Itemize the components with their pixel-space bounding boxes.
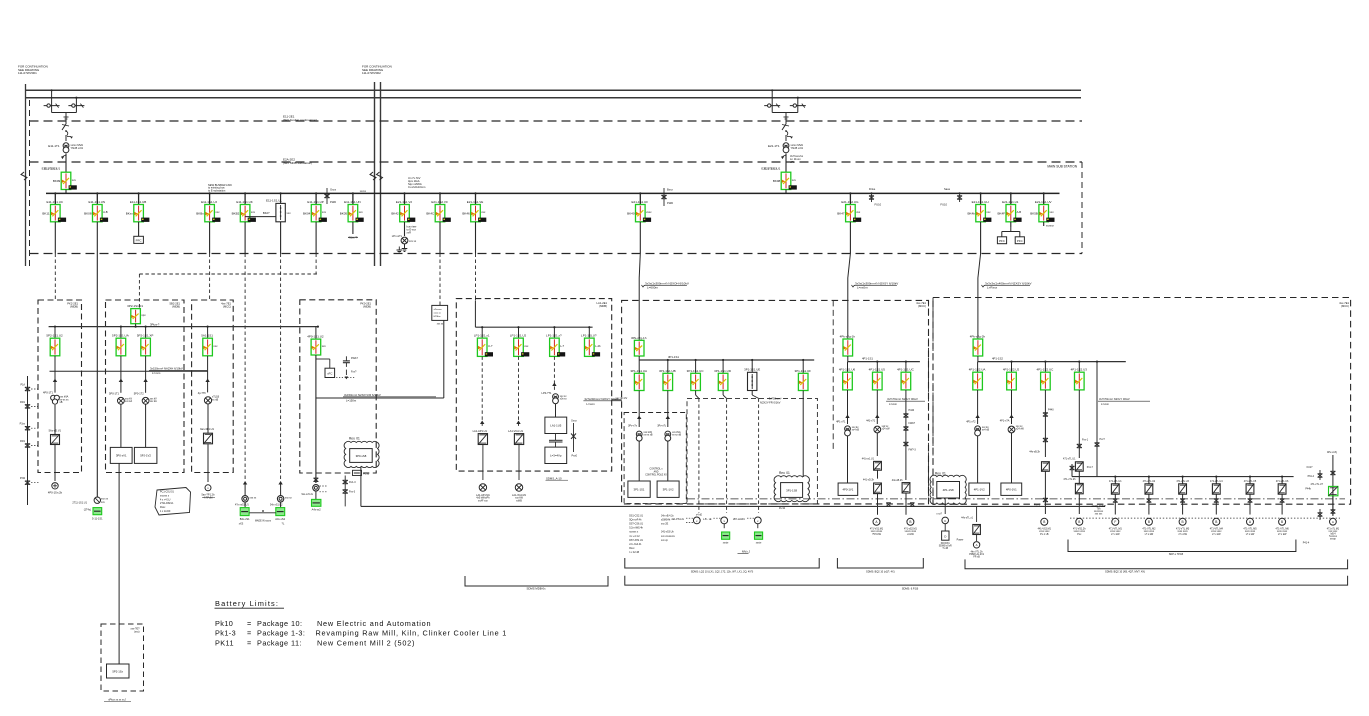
svg-text:BK4b: BK4b [967,212,975,216]
sub-bus left riser [1071,464,1073,477]
svg-text:x?.x kW: x?.x kW [1278,533,1287,536]
converter LA1-VCA.U1 [514,434,523,445]
svg-text:L=xx0m: L=xx0m [857,286,868,290]
svg-text:BK4C: BK4C [426,212,435,216]
svg-text:L=xxm: L=xxm [152,371,161,375]
svg-text:xxxxxx x: xxxxxx x [160,494,170,497]
wire: box E bus [475,326,592,328]
motor H B [907,518,914,525]
svg-text:L=xxm: L=xxm [586,402,595,406]
wire: drives sub-bus [1072,476,1294,478]
svg-text:(MDB): (MDB) [172,305,180,309]
bracket SDMS left group [625,558,819,568]
svg-text:4Pv-xxXj: 4Pv-xxXj [1327,451,1337,454]
breaker E21-1S1.UH [967,200,991,222]
breaker E11-1S1.UK [232,200,256,222]
svg-text:FW1: FW1 [20,440,26,443]
svg-text:xxx: xxx [322,345,327,348]
wire: LV link bus y371 [50,370,208,372]
bottom motor G 699 [693,517,700,524]
svg-text:MADE IN xxxxx: MADE IN xxxxx [255,520,272,523]
motor 471 col 6 [1279,518,1286,525]
svg-text:Gxxx: Gxxx [571,420,577,423]
svg-text:DS?-CS6.U1: DS?-CS6.U1 [629,523,643,526]
svg-text:A-B: A-B [1017,210,1022,214]
wire H col 905 tail [905,493,907,515]
wire: long tie line [361,505,1105,507]
wire LA1 col1 dashed [481,356,483,428]
svg-text:5P0-1T2: 5P0-1T2 [134,392,145,396]
panel box D dashed PK0-2E1 [300,300,376,473]
svg-text:P41-4: P41-4 [1303,542,1310,545]
svg-text:4P1-1S2.UA: 4P1-1S2.UA [969,368,986,372]
node: tap E11-1T1 on bus1 [51,89,53,91]
starter green box D tail [312,499,321,506]
rectifier 4P1-1V2 box [969,483,990,495]
wire H col 877 [876,390,878,424]
svg-text:xxx kA: xxx kA [125,400,132,403]
svg-text:SDP-L 7P.1B: SDP-L 7P.1B [1169,553,1184,556]
breaker 4P1-1S2.UC [1044,362,1046,373]
breaker E21-1S1.UV [1030,200,1054,222]
svg-text:xxx xx: xxx xx [437,324,444,326]
svg-text:E21-1T1: E21-1T1 [768,144,780,148]
breaker E11-1S1 incomer [53,172,77,189]
node: tap E21-1T1 on bus1 [771,89,773,91]
wire feeder drop E21-1S2.UG [849,193,851,204]
svg-text:xE1-PS1.2x: xE1-PS1.2x [671,518,684,521]
svg-text:2T11-DSLV1: 2T11-DSLV1 [160,502,174,505]
svg-text:E11-1S1.UJ: E11-1S1.UJ [201,200,217,204]
svg-text:Rev. 01: Rev. 01 [349,436,360,440]
svg-text:L-?: L-? [560,344,564,348]
svg-text:MTRxx: MTRxx [434,316,442,318]
svg-text:3P1-1S1.UA: 3P1-1S1.UA [630,369,647,373]
svg-text:B: B [1182,520,1184,524]
motor 471 col 5 [1247,518,1254,525]
svg-text:Revamping Raw Mill, Kiln, Clin: Revamping Raw Mill, Kiln, Clinker Cooler… [316,629,508,638]
revision cloud 4P1-1S8 [930,475,966,504]
svg-text:x?.x kW: x?.x kW [1145,533,1154,536]
svg-text:x4 kW: x4 kW [907,533,914,536]
svg-text:DS?-3XS.U1: DS?-3XS.U1 [629,539,643,542]
svg-text:Gxxx: Gxxx [330,188,337,192]
svg-text:3P1-1S1.UF: 3P1-1S1.UF [794,369,811,373]
svg-text:BK46: BK46 [462,212,470,216]
lv stub E11-1T1 [65,154,67,173]
svg-text:x?.x kW: x?.x kW [1178,533,1187,536]
svg-text:3P1-1S8: 3P1-1S8 [786,488,797,492]
wire feeder drop E21-1S1.U1 [1010,193,1012,204]
svg-text:BK09: BK09 [53,179,61,183]
svg-text:L=150m: L=150m [346,399,357,403]
wire box B column XP 2 [145,404,147,447]
wire LA1 col1 tail [482,444,484,480]
svg-text:Battery Limits:: Battery Limits: [215,599,279,608]
svg-text:MAIN SUB STATION: MAIN SUB STATION [1047,165,1077,169]
wire box E entry [474,301,476,327]
svg-text:BK08: BK08 [773,179,781,183]
svg-text:BK11: BK11 [42,212,49,216]
capacitor bank PFC box b [1015,237,1024,244]
svg-text:B: B [1281,520,1283,524]
svg-text:x?.x kW: x?.x kW [1111,533,1120,536]
svg-text:4P1-1S1.UC: 4P1-1S1.UC [897,368,915,372]
wire G col 639 tail [638,441,640,481]
svg-text:x24 xW: x24 xW [1016,428,1025,431]
svg-text:4P1-1S2: 4P1-1S2 [992,356,1003,360]
svg-text:Pxx0: Pxx0 [572,455,578,458]
transformer E11-1T1 [63,143,69,149]
svg-text:SDMS MDB-0x: SDMS MDB-0x [527,587,547,591]
wire feeder drop E11-1S1.UB [138,193,140,204]
capacitor bank PFC box a [997,237,1006,244]
svg-text:BK4F: BK4F [997,212,1005,216]
svg-text:Fxx?: Fxx? [351,371,357,374]
breaker 4P1-1S2.U2 [1011,362,1013,373]
svg-text:=: = [247,638,251,647]
svg-text:4 x +4 1U: 4 x +4 1U [160,498,171,501]
svg-text:(MCC): (MCC) [918,304,926,308]
svg-text:Bxxx: Bxxx [667,188,673,192]
svg-text:Rev. 01: Rev. 01 [779,471,790,475]
contactor cell E11-1S1.UL (plain) [280,192,282,194]
rectifier 4P0-1V1 box [838,483,858,495]
svg-text:LA1-1U5: LA1-1U5 [550,424,561,428]
rectifier 5P1-1V2 box [134,447,157,463]
node: 6kV tap E21-1S1.UF [639,192,641,194]
motor feeder dashed 759 [758,398,760,513]
rectifier 3P1-1V2 box [657,481,679,497]
svg-text:3P1-1S1: 3P1-1S1 [668,355,679,359]
wire: feeder 440 tail dashed [439,222,441,254]
svg-text:PK11: PK11 [215,638,234,647]
breaker E11-1S1.UB [126,200,150,222]
fuse switch E21-1T1-a [764,105,780,107]
svg-text:PFC: PFC [999,239,1005,243]
svg-text:BK47: BK47 [837,212,845,216]
svg-text:xxx 4/x kV: xxx 4/x kV [615,396,627,400]
svg-text:xxx 2E: xxx 2E [661,523,669,526]
svg-text:PC1-CSU.01: PC1-CSU.01 [160,491,174,494]
svg-text:=: = [247,619,251,628]
svg-text:3Pkxx-?: 3Pkxx-? [150,322,160,326]
wire I col 977 [977,390,979,424]
wire: box H bus [847,356,849,362]
svg-text:9an-3P1.U1: 9an-3P1.U1 [200,427,214,431]
wire feeder drop E11-1S1.UN [96,193,98,204]
motor I col 1079 [1076,518,1083,525]
svg-text:xxx: xxx [287,212,292,215]
drive feeder 471 col 4 [1215,476,1217,478]
breaker 5A1-1S1 [207,327,209,339]
svg-text:(MDB): (MDB) [599,304,607,308]
svg-text:BK42: BK42 [391,212,399,216]
breaker E11-1S1.UC [42,200,66,222]
svg-text:3P2-1S1.01: 3P2-1S1.01 [127,304,143,308]
svg-text:LA1-AP1.U1: LA1-AP1.U1 [473,429,488,433]
svg-text:341-xS3.Ub: 341-xS3.Ub [661,531,674,534]
wire box A column 3 [54,445,56,482]
svg-text:3P0-xS8: 3P0-xS8 [356,454,367,458]
bottom motor C group [944,498,946,514]
converter LA1-AP1.U1 [478,434,487,445]
svg-text:BK05: BK05 [340,212,348,216]
boundary: left limit lines [25,84,27,266]
break mark left [21,172,27,180]
capacitor bank PFC box feeder 138 [134,236,144,243]
svg-text:L-4b: L-4b [595,344,601,348]
svg-text:3Pv-x?j: 3Pv-x?j [657,425,666,428]
svg-text:441-xx1.U1: 441-xx1.U1 [862,458,875,461]
wire: collector dashed y274 [139,273,317,275]
svg-text:?x xB: ?x xB [942,548,948,550]
svg-text:4?x-xxS1.U1: 4?x-xxS1.U1 [235,504,249,507]
divider dashed in box G [832,300,834,452]
svg-text:5P2-1S1.XP: 5P2-1S1.XP [137,334,154,338]
svg-text:A: A [976,543,978,547]
svg-text:BK5B: BK5B [1030,212,1038,216]
node: 6kV tap E11-1S1.UC [54,192,56,194]
motor feeder dashed 699 [698,398,700,513]
bracket SDMS mid group [837,558,923,568]
svg-text:Rxxx: Rxxx [160,506,166,509]
wire right column tail [1332,496,1334,516]
svg-text:FWD: FWD [667,201,673,205]
metering box feeder 440 [432,305,448,320]
converter I col 1079 a [1075,462,1083,471]
transformer 3P0-1T1 [636,431,642,437]
svg-text:E11-1S1.UB: E11-1S1.UB [130,200,146,204]
svg-text:LP0-?T1: LP0-?T1 [542,391,553,395]
wire H col 847 tail [847,436,849,483]
disconnector E21-1T1 [782,124,786,130]
wire: 6kV main bus [46,192,1060,194]
motor feeder dashed 727 [726,398,728,513]
svg-text:xPr-xxTx: xPr-xxTx [392,234,403,238]
svg-text:(2T4x): (2T4x) [84,509,91,512]
svg-text:3x?x?0mm² N2XxY 0/1kV: 3x?x?0mm² N2XxY 0/1kV [1099,397,1130,401]
svg-text:E11-1S1.U1: E11-1S1.U1 [44,167,60,171]
svg-text:U-?: U-? [488,344,493,348]
wire: feeder UL tail dashed [280,222,282,254]
svg-text:4P1-1S1: 4P1-1S1 [862,356,873,360]
svg-text:FWA?: FWA? [909,422,916,425]
svg-text:xxx: xxx [856,211,861,214]
corridor motor feeder 280 [278,481,282,485]
svg-text:xxNB: xxNB [516,499,522,502]
svg-text:xxx xp: xxx xp [661,539,668,542]
wire I col 1079 link [1078,471,1080,483]
earth switch E11-1T1 [64,116,69,118]
svg-text:FW1: FW1 [20,401,26,404]
starter G 727 [723,524,725,528]
svg-text:Pxx-3: Pxx-3 [349,491,356,494]
wire: LV bus left cluster [49,326,318,328]
breaker E21-1S1.V2 [391,200,415,222]
node: 6kV tap E11-1S1.UB [138,192,140,194]
wire: feeder 980 tail to MCC 4P2 [980,222,982,254]
svg-text:L=600m: L=600m [647,286,658,290]
svg-text:FWA?: FWA? [351,357,358,360]
breaker LP1-1S1.U1 [481,327,483,338]
motor 471 col 4 [1213,518,1220,525]
svg-text:4P1-1S2.U3: 4P1-1S2.U3 [1071,368,1088,372]
svg-text:xxxxxx: xxxxxx [1046,225,1054,228]
svg-text:5P0-1T1: 5P0-1T1 [109,392,120,396]
svg-text:4P1-x?1: 4P1-x?1 [836,421,846,424]
wire box A column 2 [54,405,56,435]
revision cloud 3P1-1S8 [774,476,809,502]
chain H col 905 riser [905,390,907,480]
svg-text:1 x 42 xB: 1 x 42 xB [629,551,639,554]
svg-text:3P1-1S1.UB: 3P1-1S1.UB [659,369,676,373]
svg-text:P1W: P1W [20,477,26,480]
svg-text:4P0-1T1: 4P0-1T1 [43,391,54,395]
svg-text:xxx xx: xxx xx [409,240,417,243]
motor I B [1041,518,1048,525]
svg-text:2T11-1S1.U1: 2T11-1S1.U1 [72,502,87,505]
svg-text:xFC: xFC [327,372,332,376]
chain I col 1045 [1044,390,1046,457]
svg-text:E21-1S1.UF: E21-1S1.UF [632,200,649,204]
wire feeder drop E11-1S1.UN [352,193,354,204]
svg-text:3P1-1S1: 3P1-1S1 [634,488,645,492]
svg-text:P440: P440 [909,409,915,412]
wire: feeder 209 tail dashed [209,222,211,254]
svg-text:PDMX.AL.2X1: PDMX.AL.2X1 [969,553,985,556]
svg-text:4P1-1S8: 4P1-1S8 [943,488,954,492]
node: 6kV tap E21-1S1.UH [980,192,982,194]
transformer 5P0-1T2 [142,397,149,404]
svg-text:xx xB: xx xB [212,398,218,401]
svg-text:xPk: xPk [790,160,795,164]
switch 3P1-1S8 [781,483,803,498]
svg-text:44x-xTL.x1: 44x-xTL.x1 [961,517,973,520]
svg-text:xxxx: xxxx [646,211,652,214]
wire: feeder 640 tail to MCC 3P [639,222,641,254]
svg-text:4P1-1S2.U2: 4P1-1S2.U2 [1003,368,1020,372]
node: 6kV tap E21-1S1.V2 [403,192,405,194]
breaker E21-1S2.V0 [426,200,450,222]
panel box B dashed 5B2-2E1 [106,300,185,473]
transformer 441-1T1 [874,426,881,433]
starter G 759 [757,524,759,528]
svg-text:L+Rxxx: L+Rxxx [987,286,998,290]
svg-text:E21-1S1.V2: E21-1S1.V2 [396,200,413,204]
svg-text:xx4 xB: xx4 xB [982,429,990,432]
svg-text:Pxx?: Pxx? [1100,438,1106,441]
svg-text:111-07WV002: 111-07WV002 [362,71,381,75]
wire I col 1045 tail [1044,471,1046,514]
bracket SDMS right group [965,559,1348,568]
svg-text:xxx: xxx [322,211,327,214]
svg-text:xxxxx: xxxxx [360,190,367,193]
svg-text:New Cement Mill 2 (502): New Cement Mill 2 (502) [317,638,415,647]
rectifier 4P1-1V1 box [1001,483,1022,495]
svg-text:xB: xB [60,401,63,404]
svg-text:BKBx: BKBx [196,212,204,216]
svg-text:xBY-xxLRU: xBY-xxLRU [733,518,745,521]
svg-text:BK40: BK40 [627,212,635,216]
svg-text:P1A: P1A [20,384,25,387]
svg-text:YNd5 xx%: YNd5 xx% [791,146,804,150]
svg-text:=: = [247,629,251,638]
svg-text:xxx: xxx [524,345,529,348]
svg-text:9xx-xxV.2x: 9xx-xxV.2x [302,493,314,496]
motor bottom 4x1 [976,535,978,542]
wire feeder drop E21-1S2.V0 [439,193,441,204]
wire LA1 col2 tail [518,444,520,480]
wire I col 1079 tail [1078,494,1080,514]
wire: feeder 850 tail to MCC 4P1 [849,222,851,254]
switch 3P0-1S8 in cloud [350,449,373,463]
svg-text:E11-1S1.UC: E11-1S1.UC [46,200,63,204]
converter 441-1D.U1 [874,461,882,470]
svg-text:A: A [1332,520,1334,524]
svg-text:E21-1S1.UV: E21-1S1.UV [1035,200,1052,204]
svg-text:E11-1S1.UP: E11-1S1.UP [307,200,323,204]
svg-text:471-xTL.U2: 471-xTL.U2 [1143,480,1156,483]
svg-text:L=3=4Vp: L=3=4Vp [550,454,562,458]
dc link capacitor [549,439,563,441]
svg-text:SDMS: 6.P.1B: SDMS: 6.P.1B [902,587,919,591]
tick column 1320 a [1319,470,1321,480]
wire feeder drop E11-1S1.UC [54,193,56,204]
svg-text:xx4 xB: xx4 xB [852,429,860,432]
svg-text:471-xTL.2h: 471-xTL.2h [1063,478,1076,481]
svg-text:FU10: FU10 [363,473,370,476]
motor right column [1330,518,1337,525]
svg-text:5P2-1S1.UA: 5P2-1S1.UA [112,334,129,338]
svg-text:3P0-xV1: 3P0-xV1 [116,454,127,458]
wire: feeder 475 tail dashed to box E [475,222,477,254]
svg-text:xXS: xXS [239,523,244,526]
svg-text:xxxx xx: xxxx xx [434,313,442,315]
wire: 115kV bus line 1 [26,89,1082,91]
svg-text:xxx xxx: xxx xxx [1095,514,1103,516]
svg-text:BK2?: BK2? [263,211,270,215]
wire feeder drop E21-1S1.UF [639,193,641,204]
wire box C column 3 [207,444,209,482]
ground feeder 404 [404,244,406,248]
transformer 4P1-1T3 [1008,426,1015,433]
svg-text:E11-1S1.UN: E11-1S1.UN [88,200,105,204]
lv stub E21-1T1 [785,154,787,173]
drive feeder 471 col 1 [1114,476,1116,478]
svg-text:xxx: xxx [1050,211,1055,214]
svg-text:4Pk-x?g-2h: 4Pk-x?g-2h [970,335,986,339]
svg-text:x0x xx: x0x xx [560,398,568,401]
transformer 5P0-1T1 [118,397,125,404]
svg-text:4P1-x?2: 4P1-x?2 [966,421,976,424]
svg-text:P61-4: P61-4 [1308,475,1315,478]
svg-text:E11-1S1.UK: E11-1S1.UK [236,200,252,204]
transformer 4P1-1T2 [975,426,981,432]
svg-text:(MDB): (MDB) [70,305,78,309]
svg-text:4P0-1Sn.2b: 4P0-1Sn.2b [48,491,63,495]
svg-text:B: B [1148,520,1150,524]
svg-text:4 x +4 1U: 4 x +4 1U [629,535,640,538]
node: 6kV tap E21-1S2.UG [849,192,851,194]
breaker E21-1S1.U1 [997,200,1021,222]
breaker 4P1-1S1.UC [905,362,907,373]
svg-text:3x150mm² N2X2Y-FR 6/10kV: 3x150mm² N2X2Y-FR 6/10kV [344,393,381,397]
svg-text:L=xxm: L=xxm [1101,402,1110,406]
wire: metering feeder 440 drop [443,320,445,398]
wire link UK to UL [245,216,276,218]
converter bottom 4x1 [976,506,978,522]
